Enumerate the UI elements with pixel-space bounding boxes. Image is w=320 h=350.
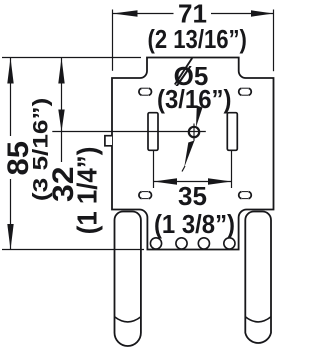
- left leg: [115, 212, 141, 346]
- vertical slot right: [227, 113, 237, 151]
- svg-text:35: 35: [178, 181, 207, 211]
- svg-text:(2 13/16”): (2 13/16”): [147, 25, 246, 54]
- mounting plate outline: [112, 58, 274, 250]
- dim 71: dimension line: [113, 13, 174, 15]
- extension bottom (plate bottom level): [2, 249, 144, 251]
- bottom hole 1: [150, 238, 161, 249]
- Ø diameter-symbol slash extending to plate edge: [175, 58, 192, 85]
- vertical slot left: [148, 113, 158, 151]
- bottom hole 4: [224, 238, 235, 249]
- svg-text:(1 3/8”): (1 3/8”): [154, 210, 235, 239]
- dim 32: line and arrows: [61, 58, 63, 164]
- leader lower: [184, 141, 194, 168]
- svg-text:(1 1/4”): (1 1/4”): [72, 147, 103, 235]
- side tab left: [105, 136, 112, 146]
- slot top-left: [139, 88, 152, 95]
- dim 35: extensions from vertical slots: [153, 151, 155, 189]
- svg-text:(3/16”): (3/16”): [157, 85, 231, 114]
- slot bottom-left: [139, 192, 152, 199]
- leader upper (from label to hole): [196, 106, 203, 128]
- extension top (plate top level): [2, 57, 141, 59]
- center hole with crosshair: [189, 127, 199, 137]
- bottom hole 2: [176, 238, 187, 249]
- dim 71: extension lines: [112, 10, 114, 71]
- slot top-right: [239, 88, 252, 95]
- right leg: [245, 212, 271, 343]
- white underlays for rotated labels: [2, 136, 31, 179]
- bottom hole 3: [198, 238, 209, 249]
- dim 85: line and arrows: [10, 58, 12, 250]
- dim 35: dimension line: [154, 181, 232, 183]
- slot bottom-right: [239, 192, 252, 199]
